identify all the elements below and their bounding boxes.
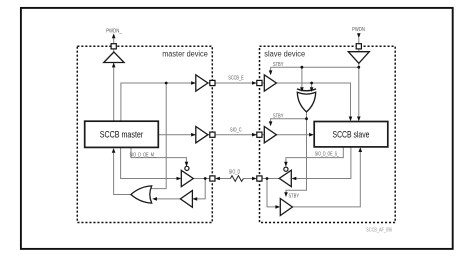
wire XOR output to SIO_C buffer enable: [271, 119, 307, 122]
wire slave pad to output buffer tip: [262, 178, 279, 180]
junction slave PWDN/STBY: [357, 66, 360, 69]
svg-text:master device: master device: [162, 50, 208, 59]
wire feedback from SCCB_E line to OR gate upper input: [151, 83, 166, 189]
wire SIO_D interconnect left segment: [219, 178, 230, 180]
wire slave pad to PWDN buffer: [358, 49, 360, 52]
pad SIO_D master: [210, 176, 215, 181]
arrow into master tristate input: [177, 177, 182, 181]
wire slave SCCB_E buffer output to box top: [276, 83, 350, 117]
SCCB master box: [85, 121, 159, 147]
wire SCCB_E drop to XOR input 2: [311, 83, 313, 89]
wire SCCB_E drive from box top: [121, 83, 195, 121]
pad SCCB_E slave: [257, 80, 262, 85]
junction master SCCB_E feedback: [165, 82, 168, 85]
wire PWDN label arrow to slave pad: [358, 38, 360, 44]
arrow into slave output buffer bubble: [284, 162, 288, 167]
lower STBY buffer slave: [280, 199, 292, 216]
pad PWDN slave: [356, 44, 361, 49]
arrow STBY into SCCB_E slave buffer: [269, 70, 273, 75]
arrow into PWDN buffer base: [112, 63, 116, 68]
OR gate master (left pointing): [131, 186, 152, 203]
arrow into slave output buffer input: [292, 177, 297, 181]
resistor on SIO_D interconnect: [230, 176, 243, 182]
arrow lower buffer output into box bottom: [359, 147, 363, 152]
pad SCCB_E master: [210, 80, 215, 85]
arrow into master tristate bubble: [185, 162, 189, 167]
wire SIO_D_OE_S net: [286, 147, 343, 166]
svg-text:STBY: STBY: [273, 62, 284, 68]
buffer PWDN slave (down): [348, 52, 369, 64]
buffer SIO_C slave: [264, 127, 276, 143]
wire XOR output: [306, 112, 308, 119]
arrow SIO_D into slave pad: [252, 177, 257, 181]
wire box bottom to slave output buffer input: [296, 147, 351, 179]
svg-text:STBY: STBY: [289, 194, 300, 200]
arrow into XOR input 2: [310, 87, 314, 92]
wire SIO_C interconnect: [215, 134, 256, 136]
svg-text:SCCB slave: SCCB slave: [333, 129, 370, 139]
arrow into lower STBY buffer enable: [284, 192, 288, 197]
arrow SIO_C into slave pad: [252, 133, 257, 137]
arrow SCCB_E net into slave box top: [349, 117, 353, 122]
wire SCCB_E interconnect: [215, 82, 256, 84]
arrow PWDN net into slave box top: [357, 117, 361, 122]
wire SIO_D data from box bottom to tristate input: [121, 147, 177, 178]
junction master SIO_D output: [204, 177, 207, 180]
wire SIO_D interconnect right segment: [243, 178, 252, 180]
arrow into master input buffer: [192, 197, 197, 201]
output buffer SIO_D slave (left): [279, 170, 291, 186]
arrow SIO_D into master pad: [215, 177, 220, 181]
arrow into SCCB_E master buffer: [191, 81, 196, 85]
svg-text:SIO_D_OE_M_: SIO_D_OE_M_: [130, 152, 157, 158]
wire lower STBY buffer output to box bottom: [292, 152, 360, 207]
svg-text:SIO_C: SIO_C: [230, 128, 242, 134]
wire SIO_C drive from box right: [158, 134, 195, 136]
svg-text:STBY: STBY: [273, 113, 284, 119]
wire slave SIO_C buffer to box: [276, 134, 309, 136]
wire XOR output down to lower STBY buffer enable: [286, 119, 307, 193]
wire STBY drop to SCCB_E buffer enable: [270, 67, 272, 71]
buffer SCCB_E master: [196, 75, 208, 91]
pad SIO_C master: [210, 132, 215, 137]
buffer PWDN master (up): [104, 52, 124, 63]
pad SIO_C slave: [257, 132, 262, 137]
pad SIO_D slave: [257, 176, 262, 181]
bubble master tristate: [185, 166, 189, 170]
wire SIO_D_OE_M net: [131, 147, 187, 166]
SCCB slave box: [314, 122, 388, 147]
wire master input buffer to OR gate: [156, 198, 180, 200]
wire STBY net horizontal: [271, 66, 359, 68]
arrow into OR gate lower input: [152, 197, 157, 201]
XOR second arc: [297, 89, 316, 91]
wire SIO_C buffer to pad: [208, 134, 210, 136]
bubble slave output buffer: [284, 167, 288, 171]
XOR gate slave (down pointing): [297, 92, 315, 112]
arrow PWDN_ up (master): [112, 33, 116, 38]
junction STBY to XOR: [301, 66, 304, 69]
svg-text:SCCB_AF_096: SCCB_AF_096: [366, 228, 392, 234]
arrow into SIO_C master buffer: [191, 133, 196, 137]
tristate buffer SIO_D master: [181, 170, 193, 186]
arrow into XOR input 1: [300, 87, 304, 92]
wire slave SIO_C pad to buffer: [262, 134, 264, 136]
buffer SCCB_E slave: [264, 75, 276, 91]
svg-text:SIO_D: SIO_D: [229, 169, 241, 175]
wire PWDN_ label to pad (master): [113, 38, 115, 44]
wire STBY drop to XOR input 1: [301, 67, 303, 88]
svg-text:SCCB master: SCCB master: [100, 129, 144, 139]
wire master box top to PWDN buffer input: [113, 63, 115, 122]
svg-text:SIO_D_OE_S_: SIO_D_OE_S_: [315, 152, 339, 158]
arrow PWDN down (slave): [357, 33, 361, 38]
svg-text:PWDN_: PWDN_: [106, 29, 122, 35]
master device dashed box: [77, 46, 212, 222]
wire junction down to lower STBY buffer input: [267, 179, 276, 207]
wire OR gate output to box bottom: [114, 152, 131, 195]
wire junction to master input buffer: [197, 179, 206, 199]
wire master pad to PWDN buffer: [113, 49, 115, 52]
svg-text:SCCB_E: SCCB_E: [228, 76, 244, 82]
arrow OR output into box bottom: [112, 148, 116, 153]
arrow SIO_C buffer output into slave box: [309, 133, 314, 137]
wire slave PWDN buffer output to box top: [358, 63, 360, 117]
junction slave SIO_D: [266, 177, 269, 180]
arrow SCCB_E into slave pad: [252, 81, 257, 85]
arrow into SIO_C slave buffer enable: [269, 121, 273, 126]
input buffer SIO_D master (left): [180, 191, 192, 208]
pad PWDN master: [111, 44, 116, 49]
svg-text:slave device: slave device: [264, 50, 305, 59]
buffer SIO_C master: [196, 127, 208, 143]
junction XOR output: [305, 117, 308, 120]
arrow into lower STBY buffer input: [275, 205, 280, 209]
junction SCCB_E to XOR: [310, 82, 313, 85]
slave device dashed box: [260, 46, 396, 222]
wire SCCB_E buffer to pad: [208, 82, 210, 84]
wire tristate output to pad: [193, 178, 210, 180]
svg-text:PWDN: PWDN: [352, 27, 365, 33]
wire slave SCCB_E pad to buffer: [262, 82, 264, 84]
